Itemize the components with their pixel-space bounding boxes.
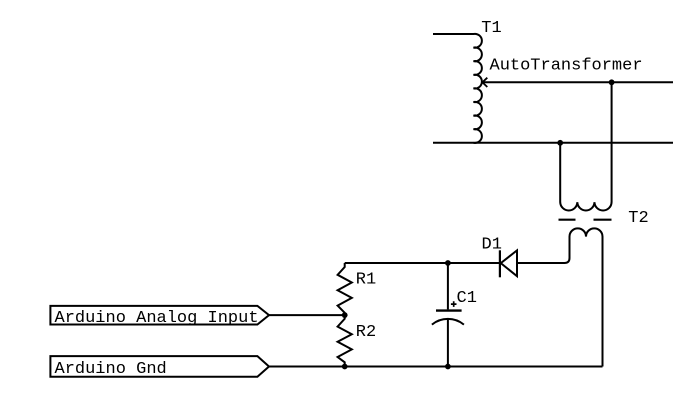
svg-text:R1: R1 xyxy=(356,271,376,290)
svg-text:AutoTransformer: AutoTransformer xyxy=(490,56,643,75)
svg-text:D1: D1 xyxy=(482,235,502,254)
svg-text:R2: R2 xyxy=(356,323,376,342)
svg-text:Arduino Gnd: Arduino Gnd xyxy=(55,360,167,379)
svg-text:T2: T2 xyxy=(628,209,648,228)
svg-text:T1: T1 xyxy=(481,19,501,38)
svg-text:Arduino Analog Input: Arduino Analog Input xyxy=(55,309,259,328)
svg-text:C1: C1 xyxy=(457,289,477,308)
